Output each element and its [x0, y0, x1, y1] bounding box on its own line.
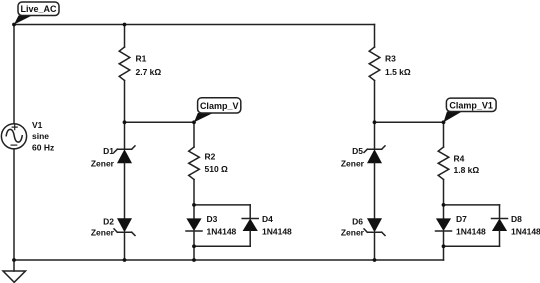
wire D7 column to ground rail [443, 246, 445, 260]
voltage source V1 [1, 124, 26, 149]
svg-text:Clamp_V: Clamp_V [200, 101, 239, 111]
diode D2 Zener [114, 218, 135, 260]
junction Live_AC corner [12, 23, 16, 27]
value label D6 Zener [341, 217, 365, 238]
svg-text:D8: D8 [511, 214, 522, 224]
junction Clamp_V1 left [373, 120, 377, 124]
junction top rail / R1 [123, 23, 127, 27]
node Clamp_V1 [444, 98, 497, 122]
svg-text:1.5 kΩ: 1.5 kΩ [385, 67, 411, 77]
value label D1 Zener [91, 146, 115, 169]
svg-text:1N4148: 1N4148 [456, 227, 486, 237]
value label R3 1.5 kOhm [385, 54, 411, 78]
svg-text:R4: R4 [454, 154, 465, 164]
wire D3/D4 bottom bus [194, 245, 250, 247]
resistor R3 [369, 25, 380, 123]
junction Clamp_V left [123, 120, 127, 124]
junction ground rail / D6 [373, 258, 377, 262]
wire left rail top (Live_AC to V1 +) [13, 25, 15, 124]
junction D7/D8 top [442, 203, 446, 207]
junction ground rail / V1 [12, 258, 16, 262]
svg-text:1N4148: 1N4148 [262, 227, 292, 237]
ground [3, 260, 26, 282]
wire top rail Live_AC [14, 24, 375, 26]
wire bottom ground rail [14, 259, 444, 261]
junction D3/D4 top [192, 203, 196, 207]
wire D7/D8 bottom bus [444, 245, 500, 247]
svg-text:Zener: Zener [341, 228, 365, 238]
value label R4 1.8 kOhm [454, 154, 480, 176]
resistor R2 [189, 122, 200, 205]
value label R1 2.7 kOhm [136, 54, 162, 78]
diode D4 1N4148 [242, 205, 258, 246]
junction ground rail / D3 [192, 258, 196, 262]
svg-text:R2: R2 [205, 152, 216, 162]
svg-text:Live_AC: Live_AC [20, 4, 57, 14]
svg-text:D4: D4 [262, 214, 273, 224]
value label D7 1N4148 [456, 214, 486, 237]
svg-text:Clamp_V1: Clamp_V1 [449, 100, 493, 110]
junction D7/D8 bottom [442, 244, 446, 248]
svg-text:D6: D6 [352, 217, 363, 227]
value label D5 Zener [341, 146, 365, 169]
resistor R4 [438, 122, 449, 205]
svg-text:60 Hz: 60 Hz [32, 143, 54, 153]
value label D2 Zener [91, 217, 115, 238]
junction Clamp_V right [192, 120, 196, 124]
svg-text:sine: sine [32, 131, 49, 141]
wire V1 bottom to ground rail [13, 149, 15, 260]
diode D5 Zener [364, 122, 385, 218]
svg-text:D5: D5 [352, 146, 363, 156]
junction ground rail / D2 [123, 258, 127, 262]
wire D3/D4 top bus [194, 204, 250, 206]
value label R2 510 Ohm [205, 152, 229, 175]
svg-text:Zener: Zener [91, 159, 115, 169]
svg-text:1.8 kΩ: 1.8 kΩ [454, 165, 480, 175]
resistor R1 [119, 25, 130, 123]
junction D3/D4 bottom [192, 244, 196, 248]
svg-text:R1: R1 [136, 54, 147, 64]
value label D4 1N4148 [262, 214, 292, 237]
svg-text:D1: D1 [103, 146, 114, 156]
junction Clamp_V1 right [442, 120, 446, 124]
svg-text:510 Ω: 510 Ω [205, 164, 229, 174]
diode D8 1N4148 [492, 205, 508, 246]
svg-text:1N4148: 1N4148 [207, 227, 237, 237]
svg-text:1N4148: 1N4148 [511, 227, 540, 237]
diode D1 Zener [114, 122, 135, 218]
svg-text:R3: R3 [385, 54, 396, 64]
svg-text:D7: D7 [456, 214, 467, 224]
svg-text:Zener: Zener [341, 159, 365, 169]
wire D7/D8 top bus [444, 204, 500, 206]
svg-text:D2: D2 [103, 217, 114, 227]
svg-text:2.7 kΩ: 2.7 kΩ [136, 67, 162, 77]
wire Clamp_V node (R1 bottom to R2 top) [125, 121, 195, 123]
wire Clamp_V1 node (R3 bottom to R4 top) [375, 121, 444, 123]
value label D8 1N4148 [511, 214, 540, 237]
svg-text:V1: V1 [32, 120, 43, 130]
diode D7 1N4148 [436, 205, 452, 246]
value label V1 sine 60 Hz [32, 120, 54, 153]
diode D3 1N4148 [186, 205, 202, 246]
node Clamp_V [194, 98, 241, 123]
value label D3 1N4148 [207, 214, 237, 237]
diode D6 Zener [364, 218, 385, 260]
svg-text:Zener: Zener [91, 228, 115, 238]
node Live_AC [14, 2, 59, 25]
svg-text:D3: D3 [207, 214, 218, 224]
wire D3 column to ground rail [193, 246, 195, 260]
